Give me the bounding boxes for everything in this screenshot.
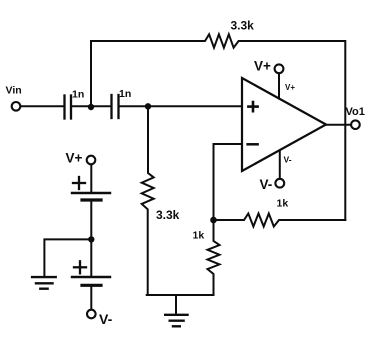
svg-text:Vo1: Vo1: [346, 106, 365, 118]
svg-text:V-: V-: [284, 155, 292, 165]
svg-text:1k: 1k: [193, 230, 205, 242]
svg-text:3.3k: 3.3k: [156, 208, 180, 222]
svg-text:1k: 1k: [277, 198, 289, 210]
svg-text:V-: V-: [260, 177, 273, 192]
svg-text:1n: 1n: [119, 88, 131, 100]
svg-text:V+: V+: [66, 151, 83, 166]
svg-text:V+: V+: [254, 59, 271, 74]
svg-text:Vin: Vin: [6, 85, 22, 97]
svg-text:1n: 1n: [72, 89, 84, 101]
svg-text:3.3k: 3.3k: [231, 18, 255, 32]
svg-text:V-: V-: [99, 311, 113, 327]
svg-text:V+: V+: [285, 83, 295, 92]
